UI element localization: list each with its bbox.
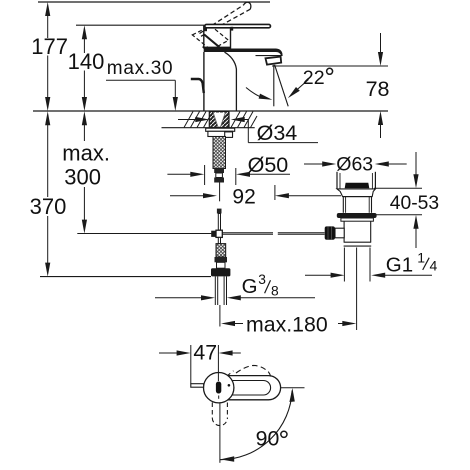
- faucet spout underside line: [256, 55, 282, 57]
- svg-text:78: 78: [366, 77, 390, 101]
- svg-text:1: 1: [417, 250, 425, 266]
- dimension G1 1/4: [305, 273, 432, 278]
- dimension 92: [170, 185, 341, 200]
- faucet body left edge: [203, 52, 205, 111]
- dimension Ø50: [167, 165, 290, 185]
- aerator: [266, 57, 282, 65]
- top view vertical centerline: [219, 403, 221, 463]
- threaded shank in deck: [209, 111, 229, 127]
- 22 degree leader line with arrow: [291, 80, 309, 96]
- top view dot: [228, 384, 231, 387]
- threaded pipe G3/8: [215, 276, 226, 326]
- drain plug knob: [345, 183, 370, 189]
- 22 degree swivel arc with arrow: [246, 88, 265, 99]
- hose end fitting: [214, 169, 224, 174]
- faucet cartridge housing: [204, 26, 231, 48]
- svg-text:40-53: 40-53: [390, 193, 439, 214]
- housing bottom thick edge: [204, 47, 231, 49]
- svg-text:3: 3: [258, 272, 266, 287]
- svg-text:max.: max.: [62, 140, 110, 165]
- drain bottom coupling: [344, 241, 372, 243]
- svg-text:47: 47: [193, 340, 217, 364]
- 22 degree slant line: [275, 65, 289, 107]
- dimension Ø63: [304, 161, 407, 166]
- drain mid cylinder: [342, 197, 344, 213]
- hose tail line: [219, 183, 221, 202]
- svg-text:177: 177: [31, 34, 68, 59]
- mounting washer below deck: [206, 128, 235, 131]
- dimension 177: [45, 2, 50, 111]
- faucet handle knob solid edge: [204, 35, 219, 48]
- dimension 140: [82, 25, 87, 111]
- lower hose fitting: [215, 257, 228, 262]
- top view lever capsule outer: [205, 376, 281, 400]
- faucet handle lever (solid, horizontal): [205, 24, 271, 27]
- water stream vertical line: [273, 65, 275, 107]
- faucet spout contour curve: [225, 52, 237, 111]
- svg-text:90: 90: [256, 427, 280, 451]
- top view dashed lever down position: [212, 403, 227, 426]
- rod cross fitting: [211, 231, 216, 237]
- drain centerline: [356, 248, 358, 331]
- mounting nut: [208, 131, 233, 136]
- side port collar: [335, 228, 344, 238]
- top view tick mark: [218, 396, 220, 399]
- svg-text:140: 140: [68, 49, 105, 74]
- faucet handle knob raised (dashed rotated square): [192, 26, 228, 50]
- deck hatching: [184, 112, 257, 128]
- top view horizontal centerline: [281, 387, 305, 389]
- lower hose braid: [216, 244, 226, 257]
- faucet handle lever raised (dashed): [200, 2, 251, 36]
- svg-text:max.180: max.180: [246, 312, 328, 336]
- top view dashed swung lever up-right: [236, 365, 271, 379]
- dimension 47: [159, 345, 241, 384]
- pop-up rod knob: [217, 209, 222, 214]
- top view stub bracket: [191, 384, 204, 388]
- svg-text:G: G: [242, 276, 258, 298]
- svg-text:22: 22: [303, 67, 325, 89]
- spout outlet reference line: [272, 65, 388, 67]
- connection nut G3/8: [211, 268, 230, 276]
- svg-text:370: 370: [30, 194, 67, 219]
- svg-text:max.30: max.30: [107, 58, 174, 79]
- drain plug upper cylinder: [337, 172, 375, 189]
- dimension max.300: [82, 111, 87, 233]
- svg-text:8: 8: [271, 283, 279, 298]
- dimension Ø34 arrows: [178, 117, 318, 143]
- drain lower body: [343, 221, 345, 242]
- faucet handle knob bottom arc: [203, 47, 214, 50]
- max.300 bottom line merging into pop-up rod line: [77, 233, 211, 235]
- dimension 78: [378, 33, 383, 138]
- dimension 40-53: [374, 152, 422, 248]
- top view slot: [216, 382, 221, 394]
- side port knurled knob: [325, 226, 335, 239]
- flexible supply hose braid: [213, 137, 226, 169]
- top view lever capsule inner: [212, 381, 271, 396]
- dimension G3/8 arrows: [155, 295, 315, 300]
- faucet body top bar: [204, 49, 283, 57]
- deck top line: [33, 110, 388, 112]
- 90 degree arc: [220, 391, 292, 460]
- handle lever left nub: [204, 28, 207, 31]
- svg-text:Ø34: Ø34: [257, 121, 298, 145]
- svg-text:G1: G1: [386, 254, 413, 277]
- svg-text:4: 4: [430, 257, 438, 273]
- housing right notch: [231, 27, 234, 31]
- svg-text:300: 300: [64, 165, 101, 190]
- 370 bottom reference line: [40, 276, 211, 278]
- rod lower vertical: [218, 237, 220, 243]
- dimension max.180: [221, 321, 356, 326]
- G1 1/4 extension lines: [343, 248, 345, 282]
- pop-up rod vertical: [218, 214, 220, 231]
- mounting bracket hook on body: [191, 79, 204, 93]
- reference line top (177 level): [38, 1, 270, 3]
- pop-up rod horizontal right segment: [222, 232, 273, 234]
- deck bottom line: [162, 127, 255, 129]
- reference line handle level (140): [76, 24, 205, 26]
- pop-up rod guide tab: [225, 132, 233, 138]
- drain flange: [337, 213, 377, 218]
- svg-text:Ø50: Ø50: [248, 153, 289, 177]
- svg-text:92: 92: [232, 185, 255, 208]
- pipe centerline: [219, 305, 221, 327]
- drain neck: [337, 189, 375, 197]
- dimension 370: [45, 111, 50, 276]
- top view base circle: [204, 373, 234, 403]
